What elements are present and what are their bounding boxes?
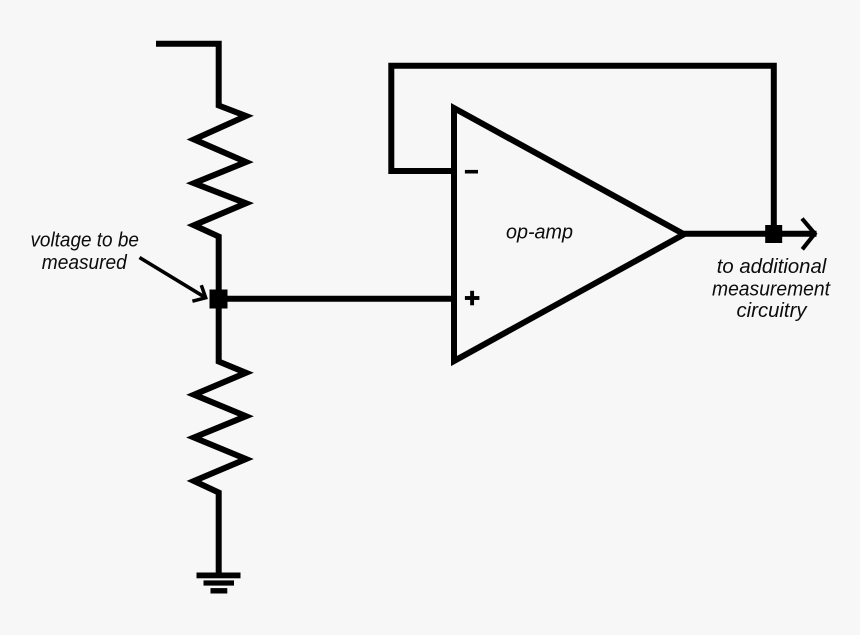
svg-text:measured: measured — [42, 251, 128, 274]
svg-text:voltage to be: voltage to be — [30, 228, 139, 251]
svg-text:measurement: measurement — [712, 278, 831, 301]
svg-text:to additional: to additional — [717, 255, 828, 278]
svg-text:op-amp: op-amp — [506, 221, 573, 244]
svg-text:circuitry: circuitry — [737, 299, 809, 322]
